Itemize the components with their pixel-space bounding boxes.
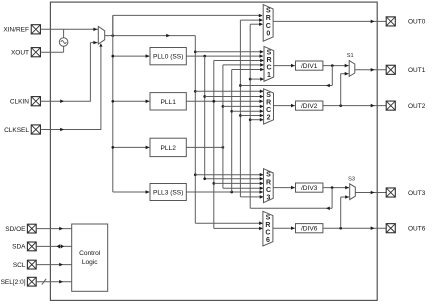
svg-text:Control: Control bbox=[79, 250, 101, 257]
divider /DIV2 bbox=[296, 101, 323, 110]
pin OUT3 bbox=[386, 188, 426, 197]
net PLL0 vertical bbox=[203, 56, 263, 180]
wire PLL0 output bbox=[186, 54, 263, 58]
wire DIV3 to S3 mux bbox=[323, 186, 349, 190]
IC outline (chip border) bbox=[50, 2, 377, 300]
mux SRC0 bbox=[263, 5, 273, 42]
wire SEL[2:0] to control logic bbox=[36, 279, 71, 285]
svg-text:1: 1 bbox=[267, 72, 271, 79]
pin OUT6 bbox=[386, 224, 426, 233]
wire XIN/REF to input mux bbox=[41, 28, 99, 32]
svg-text:OUT0: OUT0 bbox=[408, 19, 426, 26]
divider /DIV6 bbox=[296, 224, 323, 233]
wire DIV1 feedback loop bbox=[240, 66, 332, 88]
svg-text:S: S bbox=[266, 8, 271, 15]
wire SRC1 to DIV1 bbox=[274, 64, 295, 68]
svg-text:CLKSEL: CLKSEL bbox=[4, 127, 29, 134]
wire SRC2 to DIV2 bbox=[274, 104, 295, 108]
crystal oscillator bbox=[59, 29, 68, 46]
pin CLKSEL bbox=[4, 125, 40, 134]
svg-text:OUT1: OUT1 bbox=[408, 67, 426, 74]
wire SRC0 to OUT0 bbox=[273, 20, 386, 24]
divider /DIV3 bbox=[296, 183, 323, 192]
svg-text:OUT3: OUT3 bbox=[408, 190, 426, 197]
wire S1 to OUT1 bbox=[355, 68, 386, 72]
svg-text:SDA: SDA bbox=[12, 244, 26, 251]
pin XOUT bbox=[11, 48, 41, 57]
svg-text:C: C bbox=[266, 187, 271, 194]
wire REF up-branch to SRC0 bbox=[113, 14, 263, 36]
pin OUT1 bbox=[386, 65, 426, 74]
mux SRC3 bbox=[264, 169, 274, 203]
svg-text:S: S bbox=[266, 172, 271, 179]
wire PLL2 output bbox=[186, 146, 224, 149]
pin CLKIN bbox=[10, 97, 41, 106]
control logic block bbox=[72, 224, 108, 291]
wire SCL to control logic bbox=[36, 263, 71, 267]
wire SD/OE to control logic bbox=[36, 227, 71, 231]
pin SCL bbox=[13, 260, 36, 269]
svg-text:XOUT: XOUT bbox=[11, 50, 29, 57]
svg-text:S1: S1 bbox=[347, 53, 354, 59]
svg-text:XIN/REF: XIN/REF bbox=[3, 27, 29, 34]
wire SRC3 to DIV3 bbox=[273, 186, 295, 190]
mux SRC1 bbox=[264, 46, 274, 81]
wire DIV6 to OUT6 bbox=[323, 226, 386, 230]
PLL3 (SS) block bbox=[150, 184, 186, 201]
pin SD/OE bbox=[5, 224, 36, 233]
wire REF down-branch to PLLs bbox=[111, 15, 149, 193]
svg-text:PLL1: PLL1 bbox=[160, 99, 176, 106]
wire REF (mux output) main run bbox=[105, 34, 196, 38]
svg-text:0: 0 bbox=[266, 30, 270, 37]
svg-text:S3: S3 bbox=[348, 176, 355, 182]
pin OUT0 bbox=[386, 17, 426, 26]
pin SDA bbox=[12, 242, 36, 251]
svg-text:/DIV6: /DIV6 bbox=[301, 226, 318, 233]
svg-text:OUT2: OUT2 bbox=[408, 103, 426, 110]
wire SDA to control logic bbox=[36, 244, 71, 248]
pin XIN/REF bbox=[3, 25, 40, 34]
net PLL1 vertical bbox=[212, 59, 264, 231]
svg-text:S: S bbox=[267, 49, 272, 56]
wire DIV3 feedback loop bbox=[250, 188, 332, 211]
svg-text:2: 2 bbox=[267, 115, 271, 122]
net DIV1 feedback vertical bbox=[239, 18, 264, 198]
svg-text:PLL2: PLL2 bbox=[160, 145, 176, 152]
svg-text:/DIV2: /DIV2 bbox=[301, 103, 318, 110]
wire DIV2 to OUT2 bbox=[323, 104, 386, 108]
net PLL2 vertical bbox=[222, 63, 264, 190]
svg-text:C: C bbox=[266, 23, 271, 30]
mux SRC6 bbox=[263, 211, 273, 246]
mux S1 bbox=[347, 53, 355, 76]
svg-text:SCL: SCL bbox=[13, 262, 26, 269]
svg-text:R: R bbox=[266, 99, 271, 106]
wire CLKSEL to mux select bbox=[41, 43, 103, 131]
wire DIV2 to S1 mux bbox=[341, 72, 349, 106]
wire DIV6 to S3 mux bbox=[341, 195, 349, 228]
svg-text:3: 3 bbox=[267, 195, 271, 202]
PLL1 block bbox=[150, 93, 186, 110]
svg-text:C: C bbox=[266, 107, 271, 114]
svg-text:C: C bbox=[266, 65, 271, 72]
svg-text:R: R bbox=[266, 15, 271, 22]
net PLL3 vertical bbox=[230, 68, 264, 192]
wire S3 to OUT3 bbox=[355, 191, 386, 195]
wire CLKIN to input mux bbox=[41, 41, 98, 103]
net DIV3 feedback vertical bbox=[249, 22, 264, 208]
input clock mux bbox=[98, 26, 104, 44]
svg-text:OUT6: OUT6 bbox=[408, 226, 426, 233]
svg-text:PLL0 (SS): PLL0 (SS) bbox=[153, 54, 183, 61]
svg-text:R: R bbox=[266, 57, 271, 64]
mux SRC2 bbox=[264, 89, 274, 124]
svg-text:R: R bbox=[266, 179, 271, 186]
wire SRC6 to DIV6 bbox=[273, 226, 295, 230]
svg-text:PLL3 (SS): PLL3 (SS) bbox=[153, 190, 183, 197]
PLL0 (SS) block bbox=[150, 48, 186, 65]
pin OUT2 bbox=[386, 101, 426, 110]
svg-text:Logic: Logic bbox=[82, 259, 98, 266]
divider /DIV1 bbox=[296, 61, 323, 70]
svg-text:/DIV1: /DIV1 bbox=[301, 63, 318, 70]
svg-text:SD/OE: SD/OE bbox=[5, 226, 26, 233]
svg-text:SEL[2:0]: SEL[2:0] bbox=[1, 279, 26, 286]
svg-text:R: R bbox=[265, 222, 270, 229]
wire DIV1 to S1 mux bbox=[323, 64, 349, 68]
wire PLL3 output bbox=[186, 190, 263, 194]
PLL2 block bbox=[150, 138, 186, 156]
net REF vertical bbox=[194, 36, 264, 225]
svg-text:C: C bbox=[265, 230, 270, 237]
pin SEL[2:0] bbox=[1, 277, 37, 286]
mux S3 bbox=[348, 176, 355, 199]
wire PLL1 output bbox=[186, 100, 263, 104]
svg-text:S: S bbox=[266, 92, 271, 99]
svg-text:S: S bbox=[266, 214, 271, 221]
wire XOUT to oscillator bbox=[41, 46, 64, 52]
svg-text:6: 6 bbox=[266, 237, 270, 244]
svg-text:/DIV3: /DIV3 bbox=[301, 185, 318, 192]
svg-text:CLKIN: CLKIN bbox=[10, 99, 29, 106]
